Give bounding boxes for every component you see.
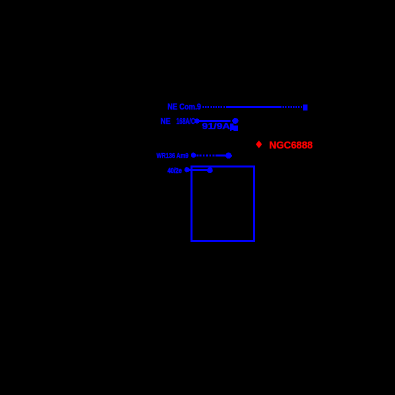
svg-text:91/9A: 91/9A — [202, 122, 230, 131]
marker near label 2 — [194, 118, 199, 123]
leader line to star 2 — [200, 120, 231, 122]
star marker 1 — [303, 105, 308, 111]
svg-text:NE: NE — [161, 117, 172, 126]
svg-text:WR136 Am9: WR136 Am9 — [157, 151, 189, 160]
marker near label 4 — [184, 167, 189, 172]
red diamond marker NGC6888 — [256, 141, 262, 149]
marker near label 3 — [191, 153, 196, 158]
svg-text:40/2e: 40/2e — [168, 168, 182, 175]
star marker 2 (with spikes) — [232, 118, 238, 124]
svg-text:NGC6888: NGC6888 — [269, 140, 313, 152]
leader line to star 1 (dot-solid-dot) — [203, 106, 303, 108]
svg-text:NE Com.9: NE Com.9 — [168, 103, 202, 112]
sub-label bracket symbol — [230, 123, 238, 131]
leader line to star 4 — [190, 169, 208, 171]
star marker 4 (target in box) — [207, 167, 213, 173]
svg-text:168A/C: 168A/C — [176, 117, 195, 126]
FOV box — [191, 166, 254, 241]
star marker 3 (with spikes) — [225, 153, 232, 159]
leader line to star 3 (dotted then solid) — [197, 154, 217, 156]
